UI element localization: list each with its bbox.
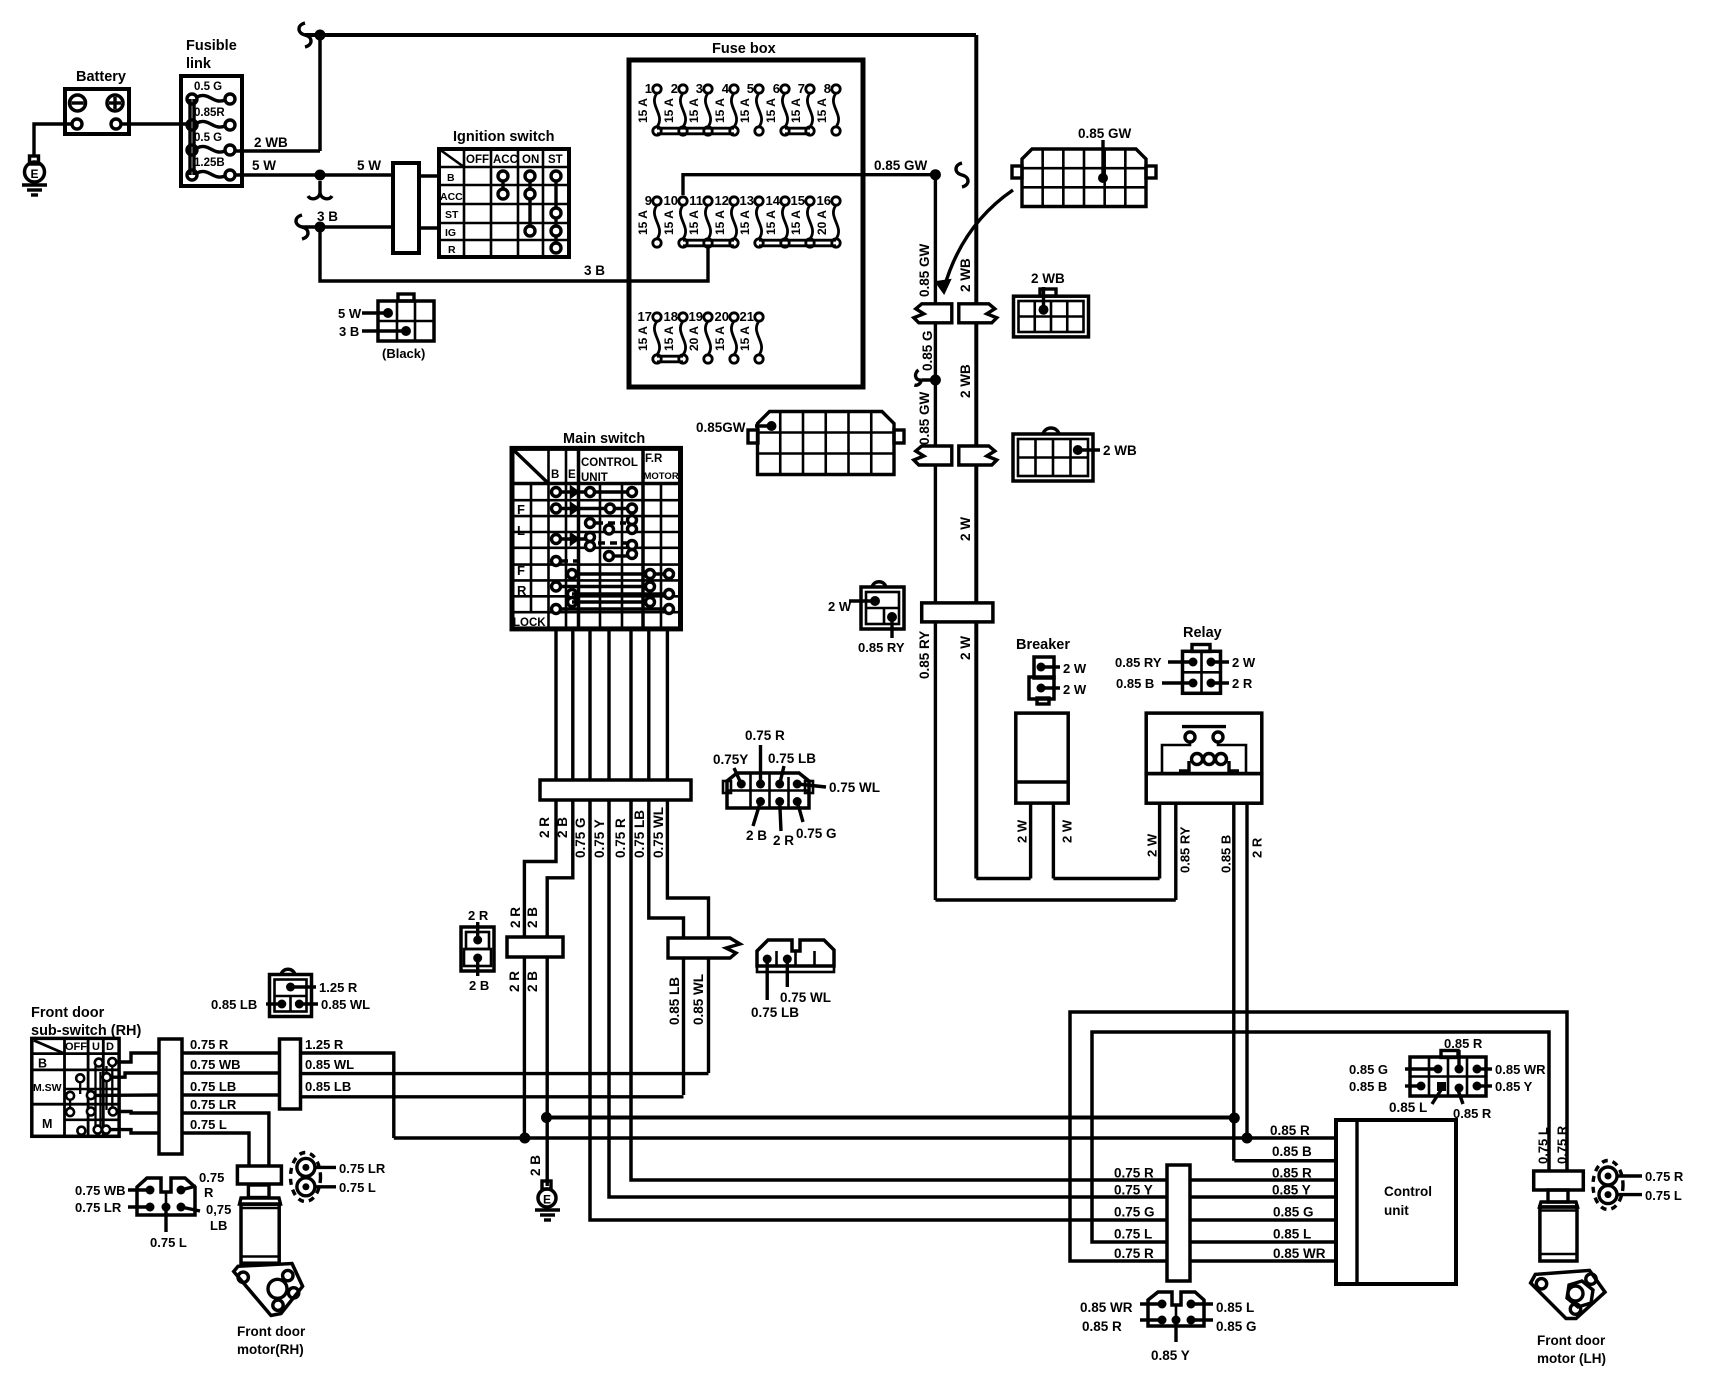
fuse 12 15A [713,193,738,247]
svg-text:B: B [551,469,559,481]
svg-text:(Black): (Black) [382,346,425,361]
main switch drop wires [556,629,667,780]
control unit [1336,1120,1456,1284]
svg-text:0.75: 0.75 [199,1170,224,1185]
svg-text:0.85 G: 0.85 G [1216,1319,1257,1334]
svg-text:0.75 LB: 0.75 LB [768,751,816,766]
svg-text:unit: unit [1384,1203,1409,1218]
svg-text:15 A: 15 A [636,210,650,235]
svg-text:0.85 L: 0.85 L [1389,1100,1427,1115]
svg-text:0.75 R: 0.75 R [190,1037,229,1052]
svg-text:F.R: F.R [645,453,663,465]
svg-text:0.75 L: 0.75 L [1536,1127,1551,1164]
svg-text:15 A: 15 A [687,210,701,235]
svg-text:0.85 WL: 0.85 WL [691,974,706,1025]
svg-text:LOCK: LOCK [513,617,546,629]
svg-text:0.75 WL: 0.75 WL [780,990,831,1005]
svg-text:2 B: 2 B [469,978,489,993]
svg-text:U: U [92,1041,100,1053]
svg-text:MOTOR: MOTOR [644,471,679,482]
svg-text:15 A: 15 A [636,98,650,123]
leader arrow to in-line connector [944,190,1013,288]
svg-text:0.75 R: 0.75 R [1114,1246,1154,1261]
svg-text:sub-switch (RH): sub-switch (RH) [31,1023,142,1039]
svg-text:0.85 R: 0.85 R [1453,1106,1492,1121]
svg-text:2 W: 2 W [1060,819,1075,843]
svg-text:OFF: OFF [65,1041,87,1053]
svg-text:M: M [42,1117,52,1131]
svg-text:R: R [204,1185,214,1200]
svg-text:15 A: 15 A [687,98,701,123]
fuse 15 15A [789,193,814,247]
wire 0.75R outer loop [1070,1012,1570,1261]
svg-text:0.75 WL: 0.75 WL [829,780,880,795]
labels 2R 2B at small bar [507,907,540,992]
fuse 8 15A [815,81,840,135]
svg-text:0.75 R: 0.75 R [1645,1169,1684,1184]
fuse 6 15A [764,81,789,135]
svg-text:0.85 WL: 0.85 WL [305,1057,354,1072]
svg-text:Ignition switch: Ignition switch [453,129,555,145]
svg-text:14: 14 [766,193,781,208]
wire labels below bar [537,807,666,858]
fuse box [629,41,863,387]
wire 0.85LB [667,958,684,1095]
ignition switch [439,129,569,257]
svg-text:0.85 R: 0.85 R [1444,1036,1483,1051]
fuse 10 15A [662,193,687,247]
svg-text:2 W: 2 W [958,636,973,660]
svg-text:0.85 GW: 0.85 GW [917,391,932,445]
fuse 21 15A [738,309,763,363]
wire 3B to ignition switch [296,209,393,239]
svg-text:2 W: 2 W [1063,682,1087,697]
svg-text:20 A: 20 A [815,210,829,235]
svg-text:15 A: 15 A [713,326,727,351]
bullet connectors 0.75LR/0.75L [291,1153,386,1202]
svg-text:0.75 Y: 0.75 Y [1114,1183,1153,1198]
svg-text:2 R: 2 R [773,833,794,848]
svg-text:0.85 R: 0.85 R [1270,1123,1310,1138]
svg-text:Front door: Front door [31,1005,105,1021]
svg-text:2: 2 [671,81,678,96]
svg-text:UNIT: UNIT [581,472,608,484]
sub-switch wires RH [182,1037,280,1166]
breaker [1016,637,1087,704]
wire 0.85WL horizontal [301,1072,709,1075]
svg-text:ST: ST [445,209,459,221]
svg-text:2 B: 2 B [525,971,540,992]
svg-text:2 R: 2 R [1250,837,1265,858]
svg-text:M.SW: M.SW [33,1082,62,1094]
fuse row1 bus 1-4 [657,128,734,134]
breaker wires 2W [976,803,1159,879]
svg-text:motor(RH): motor(RH) [237,1342,304,1357]
bullet connectors 0.75R/0.75L (LH) [1593,1161,1684,1210]
svg-text:0.85 G: 0.85 G [920,330,935,371]
connector 3-pin 1.25R/0.85LB/0.85WL [211,969,370,1016]
svg-text:Control: Control [1384,1184,1432,1199]
svg-text:0.85 GW: 0.85 GW [917,243,932,297]
fuse 11 15A [687,193,712,247]
wire 0.75R drop [631,800,1336,1180]
connector 6-pin RH motor [75,1170,231,1250]
svg-text:0.85 LB: 0.85 LB [667,977,682,1025]
svg-text:ACC: ACC [493,154,518,166]
wire 2WB from fusible link [236,135,320,151]
svg-text:7: 7 [798,81,805,96]
svg-text:0.75 R: 0.75 R [745,728,785,743]
fuse 1 15A [636,81,661,135]
connector (Black) [338,294,434,361]
svg-text:R: R [448,244,456,256]
svg-text:15 A: 15 A [738,326,752,351]
svg-text:F: F [517,502,525,517]
svg-text:0.75Y: 0.75Y [713,752,748,767]
connector 18-pin 0.85GW (main switch) [696,412,904,475]
2B junction and long wire [541,1112,1240,1124]
svg-text:12: 12 [715,193,729,208]
wire 2B jog [547,800,573,1186]
battery [65,69,129,134]
labels 0.85WL 0.85LB [305,1057,354,1094]
connector 6-pin 0.75LB/0.75WL [751,940,834,1020]
svg-text:0.75 R: 0.75 R [1114,1166,1154,1181]
svg-text:15 A: 15 A [636,326,650,351]
connector bar LH motor [1534,1171,1584,1190]
svg-text:2 W: 2 W [1145,833,1160,857]
fuse 18 15A [662,309,687,363]
connector 8-pin 2WB (lower) [1013,428,1137,481]
svg-text:5 W: 5 W [338,306,362,321]
svg-text:0.85 Y: 0.85 Y [1272,1183,1311,1198]
svg-text:3 B: 3 B [584,263,605,278]
svg-text:L: L [517,523,525,538]
connector bar below main switch [540,780,691,800]
svg-text:B: B [447,172,455,184]
svg-text:0.85 B: 0.85 B [1349,1079,1387,1094]
svg-text:1: 1 [645,81,652,96]
wire 0.85LB horizontal [301,1095,684,1098]
svg-text:0.85 B: 0.85 B [1272,1144,1312,1159]
connector 8-pin 2WB (upper) [1014,271,1089,337]
connector bar control unit [1167,1165,1190,1281]
svg-text:13: 13 [740,193,754,208]
main switch [512,431,681,629]
front door sub-switch (RH) [31,1005,142,1136]
svg-text:2 R: 2 R [507,971,522,992]
svg-text:0.75 G: 0.75 G [573,817,588,858]
svg-text:19: 19 [689,309,703,324]
wire 0.85GW trunk [917,175,935,900]
svg-text:0.85 B: 0.85 B [1116,676,1154,691]
fuse 20 15A [713,309,738,363]
svg-text:0.75 R: 0.75 R [613,818,628,858]
wire 2WB riser [318,35,322,151]
svg-text:0.85 R: 0.85 R [1272,1166,1312,1181]
fuse 19 20A [687,309,712,363]
fuse 5 15A [738,81,763,135]
svg-text:0.75 WB: 0.75 WB [75,1183,126,1198]
svg-text:IG: IG [445,227,456,239]
connector 2-pin 2R/2B [461,908,494,993]
svg-text:Battery: Battery [76,69,126,85]
svg-text:2 W: 2 W [1232,655,1256,670]
fuse row3 bus 17-18 [657,356,683,362]
svg-text:15 A: 15 A [738,210,752,235]
svg-text:10: 10 [664,193,678,208]
svg-text:0.75 LB: 0.75 LB [751,1005,799,1020]
svg-text:6: 6 [773,81,780,96]
svg-text:0.85 RY: 0.85 RY [1115,655,1162,670]
svg-text:0.75 G: 0.75 G [1114,1205,1155,1220]
svg-text:Fuse box: Fuse box [712,41,776,57]
fuse 13 15A [738,193,763,247]
svg-text:0.85 WL: 0.85 WL [321,997,370,1012]
wire 0.75Y drop [609,800,1336,1197]
connector 8-pin main switch harness [713,728,880,848]
svg-text:0.75 LR: 0.75 LR [75,1200,122,1215]
svg-text:5 W: 5 W [357,158,381,173]
fuse 9 15A [636,193,661,247]
fuse row2 bus 13-16 [759,240,836,246]
control unit wires [1114,1123,1336,1261]
svg-text:Fusible: Fusible [186,38,237,54]
svg-text:11: 11 [689,193,703,208]
svg-text:0,75: 0,75 [206,1202,231,1217]
svg-text:2 WB: 2 WB [958,364,973,398]
fuse 16 20A [815,193,840,247]
in-line connector 2WB lower [959,446,997,465]
svg-text:OFF: OFF [466,154,489,166]
svg-text:B: B [38,1057,47,1071]
svg-text:15 A: 15 A [662,98,676,123]
wire battery to fusible link [121,122,187,125]
in-line connector 0.85GW/0.85G [914,304,952,323]
svg-text:0.85 RY: 0.85 RY [917,631,932,679]
wire 5W [236,158,393,199]
svg-text:0.85 LB: 0.85 LB [305,1079,351,1094]
svg-text:0.85 LB: 0.85 LB [211,997,257,1012]
svg-text:0.85 Y: 0.85 Y [1151,1348,1190,1363]
fuse 2 15A [662,81,687,135]
svg-text:2 W: 2 W [1063,661,1087,676]
svg-text:0.5 G: 0.5 G [194,81,222,93]
svg-text:0.85 R: 0.85 R [1082,1319,1122,1334]
fuse 14 15A [764,193,789,247]
ground E (2B) [528,1155,560,1220]
svg-text:0.85 G: 0.85 G [1273,1205,1314,1220]
svg-text:3 B: 3 B [339,324,359,339]
svg-text:0.75 LR: 0.75 LR [190,1097,237,1112]
svg-text:ON: ON [522,154,539,166]
svg-text:15 A: 15 A [789,210,803,235]
sub-switch connector bar 2 [280,1039,301,1109]
svg-text:21: 21 [740,309,754,324]
svg-text:LB: LB [210,1218,227,1233]
fuse 3 15A [687,81,712,135]
svg-text:0.75 WL: 0.75 WL [651,807,666,858]
svg-text:2 WB: 2 WB [254,135,288,150]
svg-text:0.85 RY: 0.85 RY [1178,826,1193,873]
svg-text:0.85 L: 0.85 L [1273,1227,1311,1242]
svg-text:15 A: 15 A [662,326,676,351]
svg-text:link: link [186,56,212,72]
ground E (battery) [22,124,72,195]
wire 1.25R [301,1037,394,1138]
svg-text:1.25B: 1.25B [194,157,225,169]
svg-text:0.85 RY: 0.85 RY [858,640,905,655]
svg-text:E: E [543,1193,551,1207]
svg-text:15 A: 15 A [738,98,752,123]
fusible link [181,38,242,186]
svg-text:0.85 Y: 0.85 Y [1495,1079,1533,1094]
wire 2R jog [524,800,556,1138]
svg-text:R: R [517,583,527,598]
connector bar 0.85LB/0.85WL [668,938,740,958]
svg-text:motor (LH): motor (LH) [1537,1351,1606,1366]
svg-text:0.85 WR: 0.85 WR [1273,1246,1326,1261]
wire 0.85GW from fuse 10 [683,158,941,195]
svg-text:Relay: Relay [1183,625,1222,641]
svg-text:0.5 G: 0.5 G [194,132,222,144]
svg-text:1.25 R: 1.25 R [319,980,358,995]
svg-text:9: 9 [645,193,652,208]
svg-text:20: 20 [715,309,729,324]
svg-text:3: 3 [696,81,703,96]
svg-text:5: 5 [747,81,754,96]
svg-text:0.75 L: 0.75 L [1645,1188,1682,1203]
svg-text:2 R: 2 R [468,908,489,923]
connector bar RH motor [237,1166,281,1184]
wire 2WB top bus [299,23,976,47]
ignition switch connector [393,163,439,253]
svg-text:15: 15 [791,193,805,208]
wire 0.75WL jog [667,800,708,938]
svg-text:Breaker: Breaker [1016,637,1070,653]
in-line connector 2WB upper [959,304,997,323]
svg-text:0.75 R: 0.75 R [1555,1125,1570,1164]
in-line connector 0.85G/0.85GW [914,446,952,465]
svg-text:0.75 LR: 0.75 LR [339,1161,386,1176]
sub-switch connector bar 1 [159,1039,182,1154]
connector bar 2R/2B [507,937,563,957]
fuse row2 bus 10-12 [683,240,734,246]
svg-text:2 W: 2 W [828,599,852,614]
wire 2WB trunk [958,35,976,879]
svg-text:0.85 G: 0.85 G [1349,1062,1388,1077]
svg-text:15 A: 15 A [764,98,778,123]
svg-text:2 B: 2 B [525,907,540,928]
relay wires down [1145,803,1265,1161]
branch clip on 0.85G wire [914,370,941,386]
svg-text:ST: ST [548,154,563,166]
svg-text:16: 16 [817,193,831,208]
svg-text:2 W: 2 W [1015,819,1030,843]
fuse 17 15A [636,309,661,363]
svg-text:1.25 R: 1.25 R [305,1037,344,1052]
svg-text:8: 8 [824,81,831,96]
wire 0.75G drop [590,800,1336,1220]
fuse 4 15A [713,81,738,135]
svg-text:0.85 WR: 0.85 WR [1495,1062,1546,1077]
svg-text:F: F [517,563,525,578]
front door motor RH [234,1185,306,1357]
svg-text:2 W: 2 W [958,517,973,541]
wire 3B to fuse box [320,227,708,281]
svg-text:0.75 Y: 0.75 Y [592,819,607,858]
wire 0.75L inner loop [1092,1032,1551,1242]
svg-text:Front door: Front door [237,1324,306,1339]
svg-text:2 R: 2 R [508,907,523,928]
svg-text:2 WB: 2 WB [1103,443,1137,458]
svg-text:0.75 LB: 0.75 LB [632,810,647,858]
svg-text:15 A: 15 A [713,210,727,235]
svg-text:20 A: 20 A [687,326,701,351]
wire 0.85R long [394,1133,1336,1144]
svg-text:0.85 GW: 0.85 GW [874,158,928,173]
wire 0.85WL [691,958,709,1073]
svg-text:15 A: 15 A [662,210,676,235]
svg-text:2 R: 2 R [1232,676,1253,691]
wire 0.85RY return [935,898,1175,901]
svg-text:18: 18 [664,309,678,324]
svg-text:E: E [568,469,576,481]
svg-text:D: D [106,1041,114,1053]
svg-text:0.85 B: 0.85 B [1219,835,1234,873]
svg-text:E: E [30,167,38,181]
svg-text:15 A: 15 A [713,98,727,123]
sub-switch wires to bar [95,1053,159,1133]
svg-text:0.75 LB: 0.75 LB [190,1079,236,1094]
svg-text:15 A: 15 A [815,98,829,123]
svg-text:0.75 WB: 0.75 WB [190,1057,241,1072]
svg-text:17: 17 [638,309,652,324]
svg-text:15 A: 15 A [789,98,803,123]
svg-text:CONTROL: CONTROL [581,457,638,469]
svg-text:ACC: ACC [440,191,463,203]
svg-text:2 B: 2 B [746,828,767,843]
svg-text:2 B: 2 B [528,1155,543,1176]
svg-text:0.75 L: 0.75 L [150,1235,187,1250]
fuse row1 bus 6-7 [785,128,810,134]
connector bar 0.85GW+2W [922,603,993,622]
breaker body [1016,713,1068,803]
connector 6-pin control unit (bottom) [1080,1292,1257,1363]
svg-text:15 A: 15 A [764,210,778,235]
svg-text:2 WB: 2 WB [1031,271,1065,286]
svg-text:0.85R: 0.85R [194,107,225,119]
svg-text:2 WB: 2 WB [958,258,973,292]
svg-text:0.85GW: 0.85GW [696,420,746,435]
relay body [1146,713,1262,803]
front door motor LH [1531,1190,1606,1366]
svg-text:0.85 L: 0.85 L [1216,1300,1254,1315]
relay connector 4-pin [1115,645,1256,694]
svg-text:0.85 WR: 0.85 WR [1080,1300,1133,1315]
svg-text:0.75 L: 0.75 L [1114,1227,1152,1242]
svg-text:0.85 GW: 0.85 GW [1078,126,1132,141]
svg-text:0.75 G: 0.75 G [796,826,837,841]
connector 3-pin 2W/0.85RY [828,582,905,655]
svg-text:5 W: 5 W [252,158,276,173]
connector 18-pin 0.85GW (top right) [1012,126,1156,207]
svg-text:0.75 L: 0.75 L [190,1117,227,1132]
connector 8-pin control unit (top) [1349,1036,1546,1121]
svg-text:2 R: 2 R [537,817,552,838]
wire 0.75LB jog [649,800,684,938]
wire 0.85GW break [956,163,968,187]
